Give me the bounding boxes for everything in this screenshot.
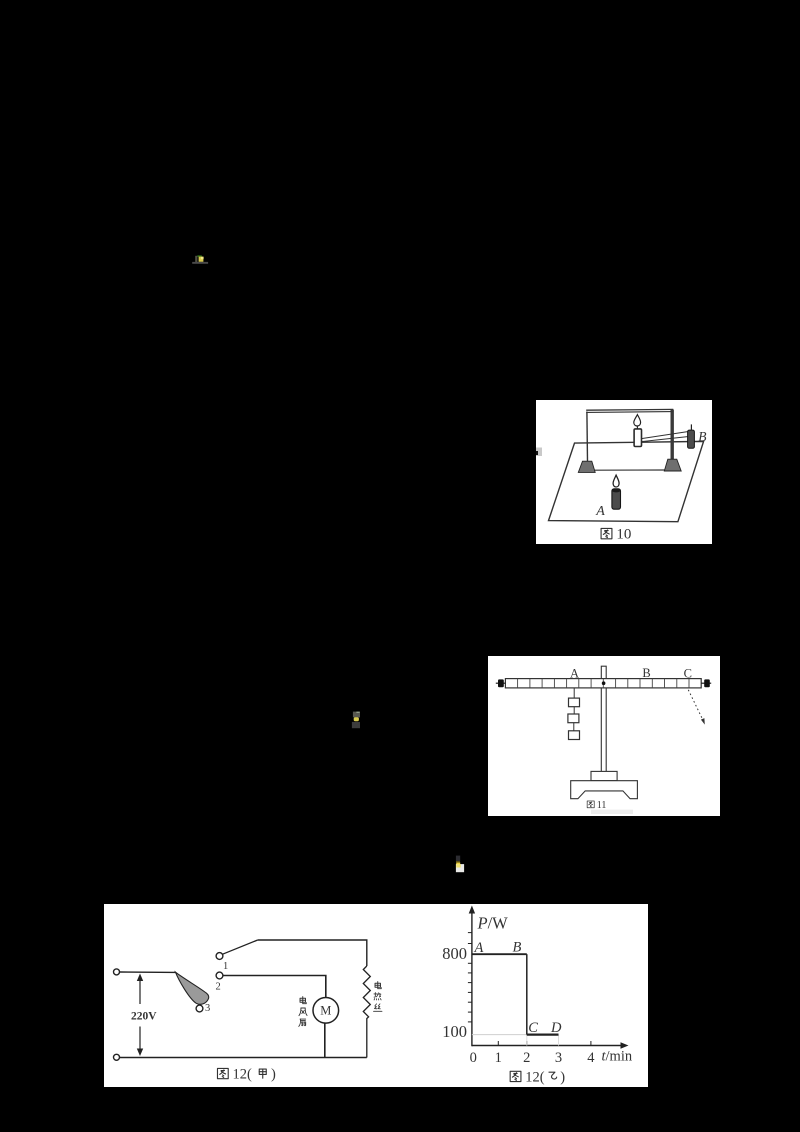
fig10 small gray tab on left edge — [536, 448, 542, 457]
contact 1 — [216, 953, 223, 960]
caption 图 10 — [601, 528, 612, 538]
candle A top cap — [612, 489, 620, 493]
wire: top terminal to switch pivot — [120, 971, 176, 973]
pivot screw — [602, 681, 606, 685]
top wire to heater — [258, 940, 367, 966]
faint gridline at 100 — [472, 1034, 527, 1036]
stand base (bench) — [571, 781, 638, 799]
weight 3 — [569, 731, 580, 740]
caption 图 11 — [587, 801, 594, 808]
candle image B body — [688, 430, 695, 448]
icon1 gray vertical bar — [195, 256, 197, 263]
svg-text:12(: 12( — [233, 1067, 253, 1083]
svg-text:2: 2 — [216, 982, 221, 993]
y-axis ticks — [468, 933, 472, 1022]
fig12 white panel — [104, 904, 648, 1087]
icon1 gray baseline bar — [192, 262, 208, 264]
faint drop lines at 2 and 3 — [526, 1035, 528, 1046]
icon3 white page — [456, 864, 464, 872]
power curve segment CD at 100 — [527, 1033, 559, 1035]
icon2 yellow blob — [354, 717, 359, 721]
middle candle wick — [636, 426, 638, 430]
svg-text:B: B — [642, 666, 650, 680]
stand clamp block — [591, 771, 617, 780]
middle lit candle body — [634, 429, 641, 447]
graph y-axis — [471, 908, 473, 1046]
icon3 yellow fade on page — [456, 864, 461, 867]
icon2 top gray blob — [353, 712, 360, 718]
right stand base (trapezoid) — [664, 459, 681, 471]
string — [573, 707, 575, 714]
stand post — [601, 666, 606, 771]
svg-text:10: 10 — [616, 527, 631, 543]
svg-text:0: 0 — [470, 1050, 477, 1066]
graph x-axis — [472, 1045, 626, 1047]
icon2 bottom gray block — [352, 722, 360, 728]
svg-text:C: C — [528, 1020, 538, 1036]
fig11 white panel — [488, 656, 720, 816]
right axle and knob — [701, 682, 711, 684]
svg-text:A: A — [474, 940, 484, 956]
icon1 yellow square — [199, 257, 204, 262]
wire from contact 2 to motor — [223, 976, 326, 998]
lever ruler with divisions — [505, 679, 701, 688]
rotary switch wedge (pointer) — [176, 972, 209, 1004]
svg-text:1: 1 — [495, 1050, 502, 1066]
x-axis ticks — [498, 1041, 591, 1046]
sight line upper from candle to image B — [641, 432, 687, 439]
power curve drop at t=2 — [526, 954, 528, 1034]
icon1 yellow bright corner — [201, 257, 204, 259]
contact 3 — [196, 1005, 203, 1012]
candle A flame — [613, 475, 619, 487]
switch blade from contact 1 — [222, 940, 257, 954]
middle candle flame — [634, 415, 641, 426]
svg-text:2: 2 — [523, 1050, 530, 1066]
icon3 olive line — [456, 861, 460, 862]
motor to bottom wire — [324, 1023, 326, 1057]
svg-text:3: 3 — [555, 1050, 562, 1066]
heater zigzag 电热丝 — [363, 966, 370, 1058]
glass plate table (parallelogram) — [549, 441, 704, 521]
supply terminal bottom — [114, 1054, 120, 1060]
right stand post (thick) — [671, 410, 674, 460]
svg-text:A: A — [570, 667, 579, 681]
hook string at A — [573, 688, 575, 698]
left stand post — [586, 412, 589, 462]
string — [573, 723, 575, 731]
weight 2 — [568, 714, 579, 723]
svg-text:B: B — [513, 940, 522, 956]
vertical label 电热丝 — [375, 982, 381, 989]
svg-text:11: 11 — [597, 800, 607, 811]
icon3 dark gray top — [456, 856, 460, 862]
svg-text:4: 4 — [587, 1050, 595, 1066]
dotted force arrow at C — [688, 690, 703, 721]
left axle and knob — [496, 682, 506, 684]
sight line lower from candle to image B — [641, 437, 687, 442]
svg-text:t/min: t/min — [602, 1049, 633, 1065]
icon1 green strip — [197, 255, 201, 257]
220V double arrow — [139, 977, 141, 1004]
vertical label 电风扇 — [300, 997, 306, 1004]
svg-text:P/W: P/W — [477, 914, 509, 933]
caption 图 12(乙) — [510, 1071, 521, 1081]
crossbar between stand bases — [594, 469, 667, 471]
svg-text:M: M — [320, 1004, 331, 1018]
icon3 yellow band — [456, 862, 460, 866]
svg-text:220V: 220V — [131, 1010, 157, 1022]
svg-text:800: 800 — [442, 944, 467, 963]
svg-text:100: 100 — [442, 1022, 467, 1041]
svg-text:): ) — [271, 1067, 276, 1083]
svg-text:1: 1 — [223, 961, 228, 972]
svg-text:): ) — [560, 1069, 565, 1085]
candle A body — [612, 489, 621, 509]
weight 1 — [569, 698, 580, 707]
svg-text:A: A — [595, 504, 605, 519]
faint smudge under caption — [591, 810, 633, 814]
contact 2 — [216, 972, 223, 979]
left stand base (trapezoid) — [578, 461, 595, 472]
svg-text:B: B — [698, 429, 706, 444]
svg-text:D: D — [550, 1020, 562, 1036]
fig10 white panel — [536, 400, 712, 544]
motor circle M — [313, 998, 339, 1024]
caption 图 12(甲) — [217, 1068, 228, 1078]
candle B wick — [690, 424, 692, 430]
icon2 top light tinge — [356, 712, 359, 713]
svg-text:3: 3 — [205, 1003, 210, 1014]
bottom wire — [120, 1057, 367, 1059]
top bar (double line) — [586, 408, 673, 411]
svg-text:12(: 12( — [525, 1069, 545, 1085]
supply terminal top — [114, 969, 120, 975]
svg-text:C: C — [684, 667, 692, 681]
power curve segment AB at 800 — [472, 953, 527, 955]
